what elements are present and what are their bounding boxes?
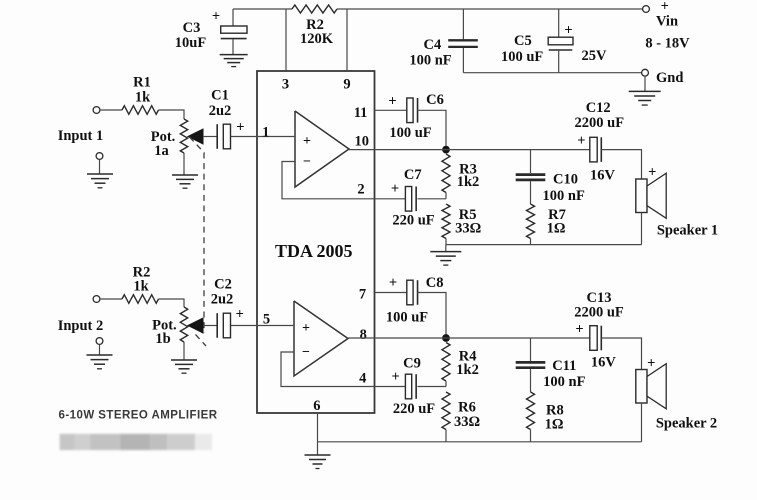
wire C8 to node B	[418, 293, 447, 335]
pot 1a wiper arrow	[188, 129, 217, 144]
svg-text:220 uF: 220 uF	[393, 401, 435, 417]
label Pot. 1b	[152, 318, 177, 348]
label R1 1k	[133, 75, 151, 106]
wire op-amp 1 feedback loop	[282, 162, 375, 199]
svg-text:33Ω: 33Ω	[454, 414, 480, 430]
label C2 2u2 +	[211, 277, 244, 323]
svg-text:C4: C4	[424, 37, 442, 53]
capacitor C6 100uF	[407, 98, 418, 123]
pot 1b wiper arrow	[188, 318, 217, 333]
svg-text:8 - 18V: 8 - 18V	[645, 35, 690, 51]
wire pin 2 out	[375, 198, 406, 200]
label TDA 2005	[275, 241, 353, 261]
label Gnd	[656, 70, 683, 86]
svg-text:10: 10	[354, 133, 369, 149]
wire pin 6 to ground	[317, 413, 319, 455]
wire channel 2 bottom rail	[318, 441, 642, 443]
label + Speaker 2	[647, 355, 717, 431]
wire pot 1b to ground	[183, 342, 185, 360]
label C12 2200 uF + 16V	[575, 100, 625, 184]
wire pin 3 drop from rail	[285, 9, 287, 71]
svg-text:16V: 16V	[590, 168, 616, 184]
svg-text:−: −	[302, 345, 310, 360]
svg-text:R1: R1	[133, 75, 151, 91]
ground pot 1a	[172, 175, 198, 188]
svg-text:10uF: 10uF	[175, 35, 207, 51]
label C11 100 nF	[543, 358, 585, 390]
svg-text:+: +	[564, 23, 572, 39]
pin 9 label	[343, 77, 350, 93]
wire input 2 to R2	[100, 298, 122, 300]
label C10 100 nF	[543, 171, 585, 204]
svg-text:+: +	[303, 134, 311, 149]
svg-text:+: +	[236, 307, 244, 323]
wire C12 to speaker 1	[602, 150, 642, 179]
label R7 1	[547, 207, 566, 237]
svg-text:C8: C8	[426, 275, 444, 291]
svg-text:C12: C12	[586, 100, 611, 116]
svg-text:C13: C13	[587, 290, 612, 306]
resistor R2 120K on supply rail	[292, 5, 337, 13]
svg-text:C2: C2	[214, 277, 232, 293]
svg-text:33Ω: 33Ω	[455, 221, 481, 237]
svg-text:+: +	[391, 181, 399, 197]
svg-text:100 nF: 100 nF	[543, 188, 585, 204]
op-amp U1b triangle	[294, 301, 348, 376]
svg-text:+: +	[575, 322, 583, 338]
ground input 1	[87, 174, 113, 188]
pin 8 label	[360, 327, 367, 343]
label C7 + 220 uF	[391, 167, 435, 228]
svg-text:+: +	[648, 165, 656, 181]
label R5 33	[455, 207, 481, 237]
wire input 2 ground post	[99, 344, 101, 355]
wire C13 to speaker 2	[602, 338, 642, 370]
label Input 2	[58, 318, 104, 334]
capacitor C9 220uF	[405, 374, 416, 399]
wire R2 to pot 1b	[159, 299, 185, 307]
svg-text:+: +	[389, 275, 397, 291]
pin 7 label	[359, 287, 366, 303]
svg-text:100 nF: 100 nF	[543, 374, 585, 390]
svg-text:2u2: 2u2	[211, 292, 234, 308]
svg-text:+: +	[212, 9, 220, 25]
op-amp U1a triangle	[295, 111, 349, 187]
wire R1 to pot 1a	[159, 110, 185, 119]
svg-text:4: 4	[359, 371, 366, 387]
label C1 2u2 +	[209, 88, 245, 136]
label + C5 100 uF 25V	[501, 23, 607, 65]
svg-text:C5: C5	[514, 33, 532, 49]
svg-text:C9: C9	[403, 355, 421, 371]
ground at Gnd terminal	[629, 91, 661, 105]
svg-text:C10: C10	[553, 171, 578, 187]
label + C8 100 uF	[386, 275, 444, 326]
svg-text:2200 uF: 2200 uF	[575, 115, 625, 131]
wire pot 1a to ground	[183, 153, 185, 175]
pin 10 label	[354, 133, 369, 149]
svg-text:120K: 120K	[300, 31, 334, 47]
pin 5 label	[263, 312, 270, 328]
svg-text:7: 7	[359, 287, 366, 303]
potentiometer Pot 1b track	[180, 307, 187, 342]
svg-text:100 nF: 100 nF	[409, 53, 451, 69]
capacitor C5 100uF 25V	[548, 9, 573, 73]
capacitor C8 100uF	[407, 280, 418, 305]
terminal Vin	[643, 6, 650, 13]
label Pot. 1a	[151, 129, 176, 159]
svg-text:TDA 2005: TDA 2005	[275, 241, 353, 261]
svg-text:+: +	[661, 0, 669, 15]
svg-text:Speaker 1: Speaker 1	[657, 222, 718, 238]
svg-text:220 uF: 220 uF	[392, 212, 434, 228]
svg-text:8: 8	[360, 327, 367, 343]
capacitor C3 10uF	[221, 9, 247, 55]
capacitor C12 2200uF	[590, 137, 602, 162]
label + Speaker 1	[648, 165, 718, 239]
svg-text:+: +	[577, 133, 585, 149]
resistor R1 1k	[122, 106, 159, 115]
wire ground return rail	[463, 72, 641, 74]
wire input 1 to R1	[100, 109, 122, 111]
pin 1 label	[262, 125, 269, 141]
wire op-amp 2 feedback loop	[281, 352, 375, 387]
terminal Gnd	[642, 69, 649, 76]
svg-text:Vin: Vin	[656, 14, 678, 30]
svg-text:+: +	[647, 355, 655, 371]
wire top supply rail	[233, 8, 643, 10]
svg-text:Speaker 2: Speaker 2	[656, 415, 717, 431]
capacitor C2 2u2	[217, 313, 230, 338]
resistor R6 33ohm	[442, 392, 450, 442]
resistor R7 1ohm	[527, 204, 535, 245]
svg-text:C7: C7	[404, 167, 422, 183]
pin 2 label	[357, 182, 364, 198]
speaker SP2	[636, 364, 666, 409]
capacitor C11 100nF	[516, 338, 546, 392]
svg-text:1k: 1k	[133, 279, 149, 295]
ground IC pin 6	[305, 455, 331, 469]
svg-text:6-10W STEREO AMPLIFIER: 6-10W STEREO AMPLIFIER	[59, 409, 218, 421]
pin 6 label	[313, 398, 320, 414]
label R6 33	[454, 400, 480, 431]
svg-text:+: +	[302, 321, 310, 336]
label C13 2200 uF + 16V	[574, 290, 624, 371]
label R4 1k2	[456, 348, 479, 378]
label R8 1	[545, 403, 564, 433]
svg-text:6: 6	[313, 398, 320, 414]
svg-text:−: −	[303, 155, 311, 170]
wire pin 8 output	[348, 337, 590, 339]
capacitor C10 100nF	[516, 150, 546, 204]
wire C9 to R4 R6 junction	[418, 386, 447, 388]
wire speaker 2 return	[641, 403, 643, 442]
wire C7 to R3 R5 junction	[418, 198, 447, 200]
label + C3 10uF	[175, 9, 220, 52]
svg-text:+: +	[236, 119, 244, 135]
svg-text:1a: 1a	[154, 143, 169, 159]
svg-text:2: 2	[357, 182, 364, 198]
IC U1 TDA 2005 outline	[257, 71, 375, 413]
title text 6-10W STEREO AMPLIFIER	[59, 409, 218, 421]
label + Vin 8-18V	[645, 0, 690, 51]
svg-text:1k2: 1k2	[457, 174, 480, 190]
svg-text:C11: C11	[552, 358, 576, 374]
svg-text:100 uF: 100 uF	[386, 310, 428, 326]
svg-text:Input 1: Input 1	[58, 128, 104, 144]
wire Gnd terminal to ground	[644, 76, 646, 91]
svg-text:1b: 1b	[155, 331, 170, 347]
svg-text:Gnd: Gnd	[656, 70, 683, 86]
ground pot 1b	[171, 360, 197, 373]
svg-text:1k2: 1k2	[456, 362, 479, 378]
svg-text:+: +	[388, 93, 396, 109]
wire C6 to node A	[418, 110, 447, 146]
resistor R8 1ohm	[527, 392, 535, 442]
svg-text:C6: C6	[426, 92, 444, 108]
svg-text:1: 1	[262, 125, 269, 141]
svg-text:100 uF: 100 uF	[389, 125, 431, 141]
wire speaker 1 return	[641, 213, 643, 245]
svg-text:1Ω: 1Ω	[545, 416, 564, 432]
svg-text:Input 2: Input 2	[58, 318, 104, 334]
wire pin 4 out	[375, 386, 406, 388]
svg-text:11: 11	[354, 105, 368, 121]
terminal Input 2	[93, 296, 100, 303]
ground input 2	[87, 355, 113, 369]
dashed gang link pots	[190, 137, 207, 346]
pin 4 label	[359, 371, 366, 387]
watermark blur block	[60, 434, 213, 450]
ground below C3	[220, 55, 248, 67]
label Input 1	[58, 128, 104, 144]
resistor R2 1k (input 2)	[122, 295, 159, 304]
pin 11 label	[354, 105, 368, 121]
svg-text:2200 uF: 2200 uF	[574, 305, 624, 321]
svg-text:C1: C1	[211, 88, 229, 104]
wire pin 1 input	[231, 136, 296, 138]
svg-text:1k: 1k	[135, 90, 151, 106]
node B junction dot	[442, 334, 450, 342]
capacitor C4 100nF	[448, 9, 478, 73]
wire pin 11 out	[375, 109, 407, 111]
resistor R3 1k2	[442, 154, 450, 199]
svg-text:+: +	[391, 369, 399, 385]
terminal Input 1	[93, 107, 100, 114]
capacitor C7 220uF	[405, 187, 416, 212]
resistor R5 33ohm	[442, 204, 450, 245]
wire pin 5 input	[231, 325, 295, 327]
svg-text:16V: 16V	[591, 355, 617, 371]
speaker SP1	[636, 173, 666, 218]
label + C6 100 uF	[388, 92, 444, 141]
svg-text:C3: C3	[183, 20, 201, 36]
wire input 1 ground post	[99, 159, 101, 174]
svg-text:9: 9	[343, 77, 350, 93]
resistor R4 1k2	[442, 343, 450, 387]
potentiometer Pot 1a track	[180, 119, 187, 153]
terminal input 2 ground post	[96, 338, 103, 345]
capacitor C1 2u2	[217, 124, 230, 149]
svg-text:1Ω: 1Ω	[547, 221, 566, 237]
capacitor C13 2200uF	[590, 326, 602, 351]
node A junction dot	[442, 146, 450, 154]
wire channel 1 bottom rail	[446, 244, 642, 246]
wire pin 7 out	[375, 292, 407, 294]
terminal input 1 ground post	[96, 153, 103, 160]
svg-text:25V: 25V	[582, 48, 608, 64]
label R2 120K	[300, 17, 334, 47]
svg-text:100 uF: 100 uF	[501, 49, 543, 65]
pin 3 label	[282, 77, 289, 93]
svg-text:2u2: 2u2	[209, 103, 232, 119]
label C9 + 220 uF	[391, 355, 435, 417]
ground channel 1	[430, 245, 461, 266]
svg-text:5: 5	[263, 312, 270, 328]
svg-text:3: 3	[282, 77, 289, 93]
label R2 1k input2	[133, 265, 151, 295]
wire pin 10 output	[349, 149, 590, 151]
label C4 100 nF	[409, 37, 451, 68]
wire pin 9 drop from rail	[346, 9, 348, 71]
label R3 1k2	[457, 162, 480, 191]
